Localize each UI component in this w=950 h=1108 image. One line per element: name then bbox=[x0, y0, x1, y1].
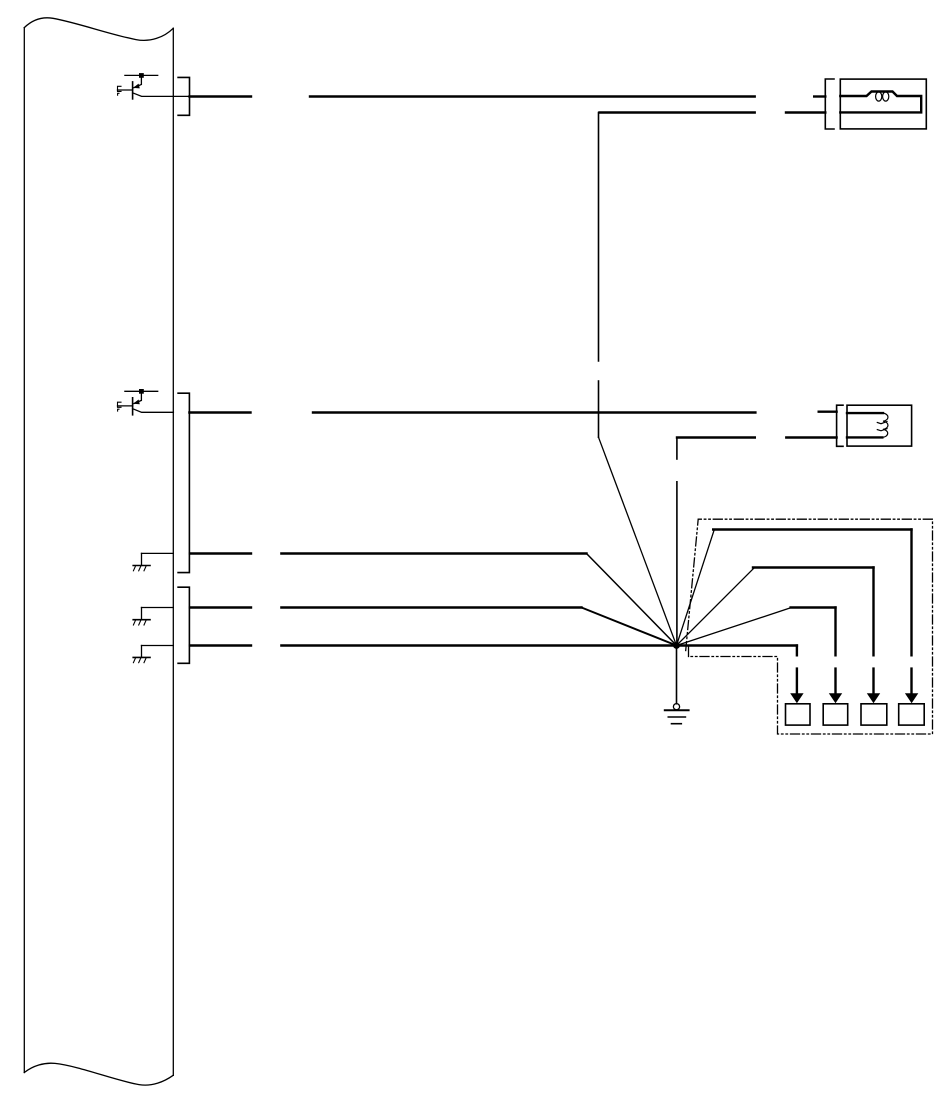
connector bracket of horn H1 (top right) bbox=[825, 79, 834, 129]
transistor Q1 (top, PNP driver inside ECU) bbox=[118, 73, 190, 99]
ground node (star point) bbox=[673, 642, 680, 649]
wire: Q2 output row y=412.5 bbox=[189, 411, 836, 414]
wire: row y=645.3 into node bbox=[190, 644, 677, 646]
load square A bbox=[786, 704, 811, 725]
wire: node down to earth ground bbox=[676, 646, 678, 704]
chassis ground G2 (row y=607.6) bbox=[133, 608, 173, 626]
shield stub at node bbox=[688, 646, 690, 657]
solenoid L1 body box bbox=[847, 405, 912, 446]
wire W3: node to square B bbox=[677, 608, 843, 704]
horn H1 body box bbox=[840, 79, 926, 129]
load square D bbox=[899, 704, 925, 725]
wire: Q1 output row y=96.5 bbox=[190, 95, 826, 97]
solenoid L1 internal coil bbox=[847, 413, 888, 437]
connector pin bracket (lower) bbox=[178, 587, 189, 663]
wire W1: node to square D (rightmost) bbox=[677, 530, 919, 704]
harness band outline (ECU block, left) bbox=[24, 18, 173, 1085]
shield boundary (dash-dot-dot enclosure) bbox=[686, 519, 933, 734]
transistor Q2 (middle, PNP driver inside ECU) bbox=[118, 389, 174, 415]
load square C bbox=[861, 704, 887, 725]
horn H1 internal coil/filament bbox=[840, 92, 921, 113]
connector bracket of solenoid L1 (middle right) bbox=[837, 405, 843, 446]
chassis ground G1 (row y=553.4) bbox=[133, 553, 173, 570]
wire: solenoid return row y=437.6 with corner at x=676.8 bbox=[677, 438, 837, 646]
wire W4: node to square A bbox=[790, 646, 803, 704]
wire: node to first branch corner bbox=[677, 644, 797, 646]
wire: diagonal from x=598 down to ground node bbox=[599, 437, 677, 645]
chassis ground G3 (row y=645.3) bbox=[133, 646, 173, 663]
load square B bbox=[823, 704, 848, 725]
wire: lamp return row y=112.7 with corner at x=598.3 bbox=[599, 113, 826, 438]
wire W2: node to square C bbox=[677, 568, 881, 704]
wire: row y=553.5 to node bbox=[190, 554, 677, 646]
connector pin bracket (middle, tall) bbox=[178, 393, 189, 572]
wire: row y=607.6 to node bbox=[190, 608, 677, 646]
earth ground symbol bbox=[665, 704, 689, 724]
connector pin bracket (top) bbox=[178, 77, 189, 115]
